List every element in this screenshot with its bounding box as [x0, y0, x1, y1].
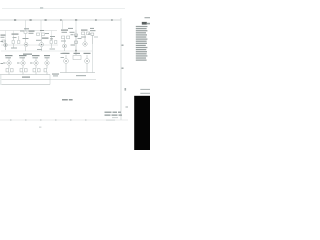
transistor Q3 cluster — [62, 36, 70, 51]
wire: bottom page border — [0, 119, 128, 121]
node Q scattered speck — [45, 33, 49, 34]
node V small mark on top edge — [40, 7, 43, 9]
node L sheet annotation — [105, 112, 123, 116]
transistor Q7 cluster — [44, 58, 49, 75]
resistor R5 small text left margin row A — [1, 41, 4, 42]
resistor R4 cluster — [91, 33, 94, 44]
transistor Q2 cluster — [37, 33, 45, 51]
node R scattered speck — [71, 34, 74, 35]
wire: drop to R2 — [50, 31, 52, 38]
transistor Q8 cluster — [64, 55, 69, 73]
node P scattered speck — [20, 31, 24, 32]
relay K1 cluster — [73, 56, 81, 60]
node T upper label row specks — [24, 28, 94, 54]
node F figure caption — [62, 99, 73, 101]
node W small speck below border — [39, 127, 41, 128]
node O mid-right label — [52, 74, 59, 75]
wire: top horizontal bus line — [0, 19, 121, 21]
wire: vertical drop from top bus — [25, 20, 27, 31]
wire: lower-left edge marks — [0, 75, 2, 85]
wire: row A upper interconnect — [0, 30, 57, 32]
wire: border segment below sheet text — [106, 119, 115, 122]
resistor R2 cluster — [50, 37, 57, 48]
transistor Q9 cluster — [85, 55, 90, 73]
wire: drop to Q1 — [5, 31, 7, 41]
node E bus label right — [76, 75, 86, 76]
wire: row A interconnect — [1, 44, 58, 46]
node I parts list text block — [136, 26, 148, 61]
node J footnote lines above title block — [140, 89, 150, 90]
node U transistor junction dots — [5, 43, 88, 63]
wire: row A lower rail — [1, 50, 92, 52]
wire: row B bus lower — [0, 79, 50, 81]
node M small mark above sheet text — [126, 107, 129, 108]
wire: right section bus — [60, 72, 95, 74]
wire: vertical drop from top bus — [62, 20, 64, 29]
node A tick marks on top bus — [14, 19, 113, 21]
diode CR1 cluster — [75, 30, 78, 55]
resistor R6 small text left margin row B — [1, 63, 4, 64]
transistor Q4 cluster — [6, 58, 13, 75]
wire: vertical drop from top bus — [75, 20, 77, 30]
resistor R1 cluster — [12, 36, 20, 48]
transistor Q5 cluster — [20, 58, 27, 75]
node D bus label — [22, 77, 30, 78]
node G parts list title corner — [145, 17, 151, 18]
wire: vertical drop from top bus — [40, 20, 42, 33]
wire: right angle connector — [49, 75, 51, 85]
resistor R3 cluster — [82, 32, 90, 46]
transistor Q1 cluster — [2, 40, 7, 50]
node H parts list heading — [142, 22, 147, 25]
transistor Q6 cluster — [33, 58, 40, 75]
node S scattered speck — [88, 34, 91, 35]
wire: row B return rail — [0, 84, 50, 86]
wire: vertical feed to row B bus — [92, 44, 94, 73]
wire: right page border — [120, 18, 122, 120]
node K black title block panel — [134, 96, 150, 150]
wire: row B bus upper — [0, 74, 50, 76]
wire: drop to R1 — [12, 31, 14, 37]
capacitor C1 cluster — [24, 31, 28, 51]
node B border zone marks — [122, 45, 124, 46]
wire: page top edge line — [2, 8, 125, 10]
node N inter-row label — [23, 54, 32, 55]
wire: lower distribution line — [50, 79, 96, 81]
node C border zone marks — [122, 68, 124, 69]
